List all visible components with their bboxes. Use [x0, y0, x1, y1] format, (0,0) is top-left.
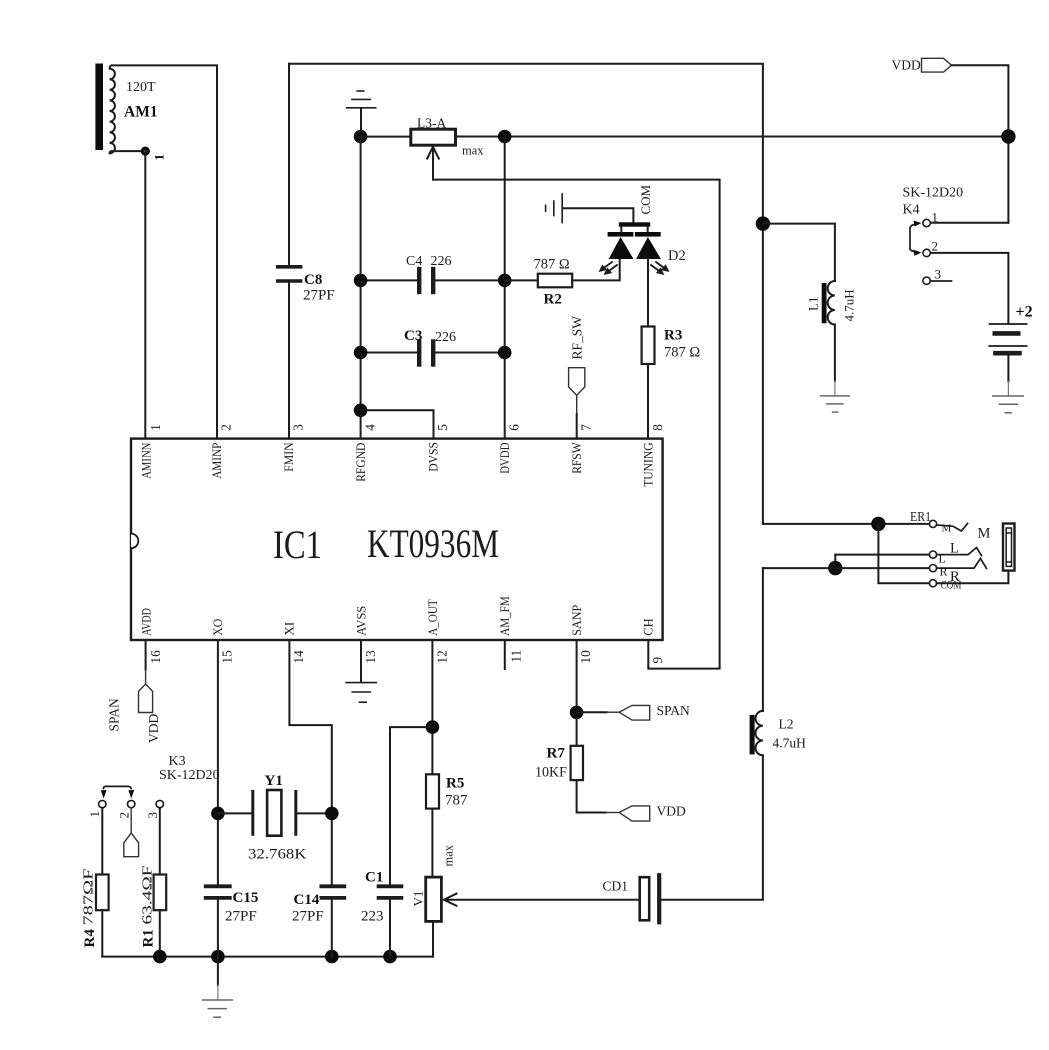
svg-text:L1: L1 — [806, 297, 821, 311]
wire AM1 bottom to node 1 — [112, 150, 145, 152]
svg-text:XI: XI — [283, 622, 297, 636]
svg-text:L: L — [939, 552, 946, 566]
K4 contact 1 circle — [923, 219, 930, 226]
wire K4 contact 2 to battery — [930, 253, 1008, 323]
wire C3 row y=352.5 — [361, 352, 417, 354]
wire ER1 R row — [763, 567, 930, 569]
svg-text:C8: C8 — [304, 272, 322, 288]
svg-text:8: 8 — [650, 424, 665, 431]
wire pin 10 SANP down — [576, 640, 578, 746]
LED D2 right triangle — [636, 237, 661, 259]
node RFGND-DVSS jog — [354, 404, 368, 418]
wire K3 contact2 to flag — [130, 808, 132, 833]
node A_OUT / C1 branch — [426, 720, 440, 734]
wire AM1 top to pin2 — [112, 65, 217, 438]
svg-text:1: 1 — [87, 811, 102, 818]
node DVDD top — [498, 130, 512, 144]
flag (K3 pin 2) — [124, 833, 139, 857]
svg-text:4.7uH: 4.7uH — [842, 289, 857, 321]
node RFGND/pot — [354, 130, 368, 144]
svg-text:+2: +2 — [1016, 304, 1033, 321]
wire RF_SW to pin 7 — [576, 395, 578, 438]
ground (COM, left-pointing) — [561, 194, 563, 223]
ER1 M contact spring — [937, 524, 968, 532]
wire COM ground to D2 bridge — [563, 208, 633, 223]
ER1 contact M circle — [929, 520, 936, 527]
K3 lever with arrows — [103, 786, 131, 788]
svg-text:DVSS: DVSS — [427, 442, 441, 472]
node C3 left — [354, 346, 368, 360]
svg-text:R5: R5 — [446, 776, 464, 792]
ER1 contact R circle — [929, 565, 936, 572]
svg-text:SANP: SANP — [570, 605, 584, 636]
node AM1 terminal 1 — [141, 147, 150, 156]
svg-text:L2: L2 — [779, 717, 794, 732]
wire L to R junction — [834, 555, 836, 569]
ER1 contact COM circle — [929, 580, 936, 587]
battery BT plates — [990, 323, 1027, 325]
wire ER1 R-row to L2 — [762, 568, 764, 711]
svg-text:K3: K3 — [169, 754, 186, 769]
svg-text:787ΩF: 787ΩF — [82, 868, 97, 925]
svg-text:R3: R3 — [664, 328, 682, 344]
svg-text:787 Ω: 787 Ω — [534, 257, 570, 273]
node ER1 L/R junction — [828, 561, 842, 575]
node XI / Y1 right — [325, 807, 339, 821]
V1 wiper arrow from CD1 — [445, 899, 639, 901]
wire K3 contact1 to R4 — [101, 808, 103, 875]
node XO / Y1 left — [211, 807, 225, 821]
svg-text:226: 226 — [431, 254, 452, 269]
svg-text:3: 3 — [145, 812, 160, 819]
potentiometer V1 body — [426, 877, 442, 921]
svg-text:R2: R2 — [544, 292, 562, 308]
wire COM to jack — [937, 572, 1009, 584]
capacitor C4 plates — [417, 269, 421, 292]
svg-text:M: M — [942, 523, 952, 535]
svg-text:AVSS: AVSS — [354, 606, 368, 636]
resistor R5 body — [426, 774, 439, 808]
wire K3 contact3 to R1 — [159, 808, 161, 875]
node L1 branch — [756, 216, 770, 230]
svg-text:TUNING: TUNING — [642, 442, 656, 486]
IC U1 body KT0936M — [131, 439, 663, 640]
wire rail ground stem — [217, 957, 219, 985]
svg-text:COM: COM — [941, 578, 962, 592]
capacitor C1 plates — [379, 884, 402, 888]
svg-text:120T: 120T — [126, 80, 156, 95]
crystal Y1 right plate — [294, 791, 297, 834]
ER1 contact L circle — [929, 551, 936, 558]
LED D2 left triangle — [609, 237, 634, 259]
svg-text:max: max — [462, 143, 484, 157]
wire ER1 M row — [763, 523, 929, 525]
svg-text:1: 1 — [148, 424, 163, 431]
svg-text:KT0936M: KT0936M — [367, 521, 499, 566]
svg-text:VDD: VDD — [146, 714, 161, 743]
svg-text:D2: D2 — [668, 248, 686, 264]
node rail C1 — [383, 950, 397, 964]
svg-text:1: 1 — [152, 154, 167, 161]
wire D2 right to R3 — [647, 259, 649, 327]
node rail C14 — [325, 950, 339, 964]
wire C14 to rail — [331, 900, 333, 957]
svg-text:787 Ω: 787 Ω — [664, 345, 700, 361]
node VDD / DVDD rail — [1001, 129, 1015, 143]
svg-text:10KF: 10KF — [535, 765, 567, 781]
svg-text:R1: R1 — [141, 929, 157, 947]
svg-text:10: 10 — [578, 650, 593, 664]
K4 contact 2 circle — [923, 249, 930, 256]
K4 lever with arrows — [910, 225, 916, 252]
wire DVDD line x=504.7 — [504, 137, 506, 439]
svg-text:9: 9 — [650, 657, 665, 664]
VDD flag (R7) — [619, 806, 650, 821]
wire ER1 COM row — [878, 524, 929, 583]
capacitor C8 plates — [278, 265, 301, 269]
resistor R3 body — [642, 327, 655, 365]
svg-text:11: 11 — [509, 650, 524, 663]
wire C15 to rail — [217, 900, 219, 957]
wire pot right / DVDD top rail y=136.5 — [456, 136, 1009, 138]
top wire (FMIN net, y=63.8) — [289, 64, 763, 524]
svg-text:L3-A: L3-A — [417, 115, 446, 130]
svg-text:XO: XO — [211, 619, 225, 636]
svg-text:2: 2 — [219, 424, 234, 431]
svg-text:27PF: 27PF — [225, 909, 257, 925]
D2 right light arrows — [651, 262, 668, 274]
wire RFGND to DVSS pin 5 — [361, 410, 434, 438]
resistor R1 body — [154, 875, 167, 911]
inductor L1 winding — [828, 281, 835, 325]
svg-text:27PF: 27PF — [303, 288, 335, 304]
svg-text:1: 1 — [932, 210, 939, 225]
svg-text:COM: COM — [638, 184, 653, 214]
ground (AVSS) — [346, 682, 376, 684]
svg-text:63.4ΩF: 63.4ΩF — [141, 865, 156, 924]
inductor L1 core bar — [822, 283, 827, 323]
wire CD1 to L2 — [661, 756, 763, 900]
ground (L1) — [821, 395, 850, 397]
svg-text:3: 3 — [935, 267, 942, 282]
wire C8 line to pin 3 — [288, 64, 290, 265]
ER1 L contact spring — [937, 548, 982, 556]
pot wiper arrow — [432, 149, 434, 180]
ER1 R contact spring — [937, 559, 987, 569]
svg-text:VDD: VDD — [657, 804, 686, 819]
node ER1 M — [871, 517, 885, 531]
svg-text:6: 6 — [507, 424, 522, 431]
svg-text:226: 226 — [435, 330, 456, 345]
svg-text:5: 5 — [435, 424, 450, 431]
wire R1 to rail — [159, 910, 161, 956]
svg-text:4.7uH: 4.7uH — [773, 736, 807, 751]
svg-text:AM_FM: AM_FM — [498, 596, 512, 636]
svg-text:2: 2 — [932, 239, 939, 254]
antenna coil AM1 core bar — [95, 64, 103, 151]
svg-text:AM1: AM1 — [124, 104, 158, 121]
svg-text:32.768K: 32.768K — [248, 847, 307, 863]
node rail R1 — [153, 950, 167, 964]
svg-text:2: 2 — [117, 812, 132, 819]
svg-text:IC1: IC1 — [273, 522, 322, 567]
svg-text:C3: C3 — [404, 328, 422, 344]
K4 contact 3 circle — [923, 277, 930, 284]
D2 left light arrows — [600, 262, 617, 274]
svg-text:RFSW: RFSW — [570, 442, 584, 474]
svg-text:AVDD: AVDD — [140, 608, 154, 636]
svg-text:max: max — [442, 844, 456, 866]
node C4 left — [354, 274, 368, 288]
LED D2 right cathode bar — [635, 232, 661, 237]
svg-text:Y1: Y1 — [265, 773, 283, 789]
RF_SW flag — [569, 368, 585, 396]
ground (top, above RFGND line, inverted) — [360, 108, 362, 137]
wire C1 to rail — [389, 900, 391, 957]
wire C1 branch — [390, 727, 432, 884]
VDD flag (top right) — [922, 58, 952, 72]
svg-text:L: L — [950, 541, 959, 557]
node C4 right — [498, 274, 512, 288]
svg-text:16: 16 — [148, 650, 163, 664]
wire pin 13 AVSS to ground — [360, 640, 362, 682]
svg-text:M: M — [978, 526, 991, 542]
crystal Y1 body — [267, 790, 281, 836]
wire L1 to ground — [834, 325, 836, 382]
capacitor CD1 right plate — [657, 875, 661, 922]
capacitor CD1 left plate (hollow) — [640, 877, 650, 920]
svg-text:A_OUT: A_OUT — [426, 599, 440, 636]
svg-text:7: 7 — [579, 424, 594, 431]
svg-text:SPAN: SPAN — [107, 698, 122, 732]
wire V1 to rail — [432, 921, 434, 956]
svg-text:787: 787 — [445, 793, 468, 809]
svg-text:SPAN: SPAN — [657, 703, 691, 718]
SPAN flag — [619, 705, 650, 720]
LED D2 left cathode bar — [608, 232, 634, 237]
wire ER1 L row — [835, 554, 929, 556]
resistor R2 lead — [505, 279, 538, 281]
node SANP — [570, 706, 584, 720]
ground (bottom rail) — [203, 999, 233, 1001]
wire R5 to V1 — [431, 809, 433, 878]
wire node1 to pin 1 — [144, 151, 146, 439]
svg-text:R: R — [940, 565, 948, 579]
svg-text:4: 4 — [363, 424, 378, 431]
svg-text:ER1: ER1 — [910, 509, 931, 524]
resistor R2 body — [538, 274, 572, 288]
ER1 jack plug body — [1003, 524, 1015, 571]
wire R3 to pin 8 — [647, 364, 649, 439]
wire pin 15 XO down — [217, 640, 219, 884]
svg-text:223: 223 — [361, 909, 384, 925]
inductor L2 core bar — [750, 715, 755, 755]
K3 contact 2 circle — [128, 800, 135, 807]
svg-text:R4: R4 — [82, 929, 98, 948]
IC notch — [131, 534, 138, 549]
svg-text:14: 14 — [291, 650, 306, 664]
svg-text:SK-12D20: SK-12D20 — [159, 768, 220, 783]
inductor L2 winding — [756, 711, 763, 755]
wire VDD to battery rail — [952, 65, 1009, 223]
wire battery to ground — [1007, 356, 1009, 382]
wire R4 to rail — [101, 910, 103, 956]
svg-text:C4: C4 — [406, 254, 422, 269]
wire SANP to SPAN flag — [577, 711, 607, 713]
wire pin 16 to VDD flag — [145, 640, 147, 670]
svg-text:12: 12 — [434, 650, 449, 663]
potentiometer L3-A body — [361, 136, 411, 138]
svg-text:C14: C14 — [294, 892, 320, 908]
capacitor C3 plates — [417, 342, 421, 365]
resistor R4 body — [96, 875, 109, 911]
wire pin 14 XI jog — [289, 640, 331, 884]
wire R7 to VDD flag — [577, 780, 606, 812]
svg-text:RF_SW: RF_SW — [570, 316, 585, 360]
node rail XO — [211, 950, 225, 964]
svg-text:FMIN: FMIN — [282, 442, 296, 471]
crystal Y1 left plate — [251, 791, 254, 834]
svg-text:V1: V1 — [411, 891, 426, 907]
svg-text:AMINP: AMINP — [210, 443, 224, 479]
svg-text:C15: C15 — [233, 890, 259, 906]
svg-text:C1: C1 — [365, 870, 383, 886]
K3 contact 3 circle — [156, 800, 163, 807]
svg-text:DVDD: DVDD — [498, 442, 512, 473]
svg-text:R7: R7 — [547, 746, 566, 762]
resistor R7 body — [571, 746, 583, 780]
svg-text:3: 3 — [291, 424, 306, 431]
svg-text:CH: CH — [642, 618, 656, 636]
VDD flag (pin 16) — [139, 684, 153, 713]
svg-text:27PF: 27PF — [292, 909, 324, 925]
ground (battery) — [993, 395, 1024, 397]
svg-text:15: 15 — [220, 650, 235, 664]
wire wiper to CH (pin 9) — [433, 180, 720, 669]
svg-text:13: 13 — [363, 650, 378, 664]
wire pin 11 stub — [504, 640, 506, 670]
node C3 right — [498, 346, 512, 360]
crystal Y1 leads — [218, 812, 252, 814]
capacitor C14 plates — [321, 884, 344, 888]
wire K4 contact 1 — [930, 222, 1008, 224]
svg-text:AMINN: AMINN — [140, 443, 154, 479]
svg-text:K4: K4 — [903, 203, 920, 218]
svg-text:SK-12D20: SK-12D20 — [903, 186, 964, 201]
svg-text:CD1: CD1 — [603, 879, 629, 894]
svg-text:RFGND: RFGND — [354, 443, 368, 482]
wire K4 contact 3 stub — [930, 280, 951, 282]
wire pin 12 A_OUT down — [431, 640, 433, 774]
wire C4 row y=280.4 — [361, 279, 417, 281]
antenna coil AM1 winding — [110, 65, 115, 153]
LED pair D2 common bar — [619, 222, 650, 226]
wire node to L1 — [763, 224, 835, 281]
svg-text:VDD: VDD — [892, 58, 921, 73]
capacitor C15 plates — [206, 884, 230, 888]
bottom ground rail — [102, 956, 433, 958]
wire R2 to D2 left anode — [572, 260, 620, 281]
K3 contact 1 circle — [99, 800, 106, 807]
wire RFGND line x=360.6 — [360, 137, 362, 439]
